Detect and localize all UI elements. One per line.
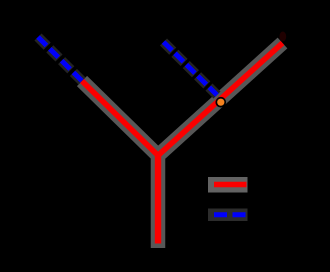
- casing of red Y rays (gray halo): [82, 43, 283, 248]
- casing of blue dashed ray upper-left: [38, 37, 82, 81]
- node marker orange dot: [217, 99, 224, 106]
- legend blue sample background: [208, 209, 248, 222]
- blue dashed ray upper-left: [38, 37, 82, 81]
- red ray left arm: [82, 81, 158, 156]
- legend red sample line: [214, 182, 247, 188]
- red ray right arm: [158, 43, 283, 156]
- legend red sample background: [208, 177, 248, 193]
- legend blue sample dashed line: [214, 212, 247, 217]
- node marker ring (black): [216, 97, 227, 108]
- red ray vertical stem: [155, 156, 161, 244]
- faint arrowhead at right arm tip: [279, 32, 286, 42]
- casing of blue dashed ray upper-middle: [164, 42, 218, 95]
- blue dashed ray upper-middle: [164, 42, 218, 95]
